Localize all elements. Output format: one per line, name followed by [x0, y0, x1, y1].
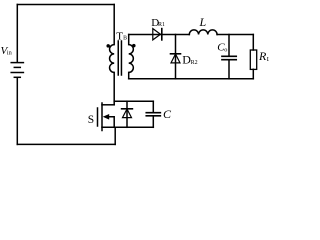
transformer T_B primary winding — [110, 5, 115, 105]
svg-text:C: C — [163, 107, 172, 121]
wire output bottom rail — [129, 78, 254, 80]
svg-text:o: o — [224, 46, 227, 53]
capacitor C snubber — [146, 101, 160, 127]
drain stub — [102, 104, 114, 106]
svg-text:R: R — [258, 49, 267, 63]
source stub / snubber bottom rail — [102, 126, 153, 128]
channel bar — [101, 103, 103, 131]
wire left vertical from top to battery — [16, 5, 18, 63]
svg-text:L: L — [267, 56, 269, 63]
wire snubber top rail — [114, 100, 153, 102]
wire rail inductor to R_L corner — [217, 34, 253, 36]
primary dot — [106, 44, 110, 48]
wire source riser — [114, 127, 116, 144]
wire bottom rail — [17, 143, 115, 145]
wire rail D_R1 to inductor — [162, 34, 190, 36]
svg-text:B: B — [123, 36, 127, 42]
mosfet S — [98, 103, 154, 131]
resistor R_L — [250, 35, 256, 79]
transformer core lines — [117, 41, 119, 75]
svg-text:R2: R2 — [191, 60, 198, 66]
battery Vin — [11, 63, 23, 78]
svg-text:S: S — [88, 114, 94, 126]
diode D_R2 freewheeling — [171, 35, 181, 79]
wire left vertical battery to bottom rail — [16, 78, 18, 144]
svg-text:L: L — [199, 15, 207, 29]
wire top rail primary — [17, 4, 114, 6]
gate bar — [97, 108, 99, 126]
diode snubber (body diode) — [122, 101, 133, 127]
diode D_R1 — [153, 29, 162, 40]
arrow stub with arrowhead — [108, 117, 115, 128]
transformer secondary winding — [129, 35, 134, 79]
wire secondary top rail — [129, 34, 162, 36]
svg-text:R1: R1 — [158, 22, 165, 28]
svg-text:in: in — [7, 50, 13, 57]
capacitor C_o — [222, 35, 236, 79]
inductor L — [189, 30, 217, 35]
secondary dot — [132, 44, 136, 48]
